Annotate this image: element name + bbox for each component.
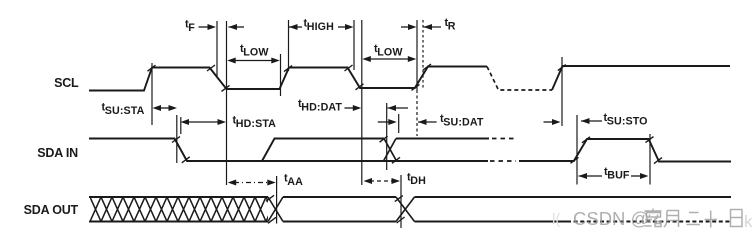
svg-text:k: k xyxy=(744,212,753,231)
svg-text:AA: AA xyxy=(287,176,303,188)
svg-text:R: R xyxy=(448,21,456,33)
svg-text:HIGH: HIGH xyxy=(307,21,334,33)
svg-text:LOW: LOW xyxy=(243,47,269,59)
svg-text:SDA OUT: SDA OUT xyxy=(24,203,79,217)
svg-text:CSDN @: CSDN @ xyxy=(573,208,649,229)
svg-text:SU:STO: SU:STO xyxy=(607,116,648,128)
svg-text:BUF: BUF xyxy=(607,170,630,182)
svg-text:DH: DH xyxy=(410,175,426,187)
svg-text:SU:STA: SU:STA xyxy=(105,105,145,117)
svg-text:l(: l( xyxy=(552,211,560,228)
svg-text:HD:STA: HD:STA xyxy=(236,118,276,130)
svg-text:F: F xyxy=(188,22,195,34)
svg-text:HD:DAT: HD:DAT xyxy=(301,102,342,114)
svg-text:SU:DAT: SU:DAT xyxy=(443,117,484,129)
svg-text:SDA IN: SDA IN xyxy=(37,146,78,160)
svg-text:SCL: SCL xyxy=(54,76,79,90)
svg-text:LOW: LOW xyxy=(377,47,403,59)
